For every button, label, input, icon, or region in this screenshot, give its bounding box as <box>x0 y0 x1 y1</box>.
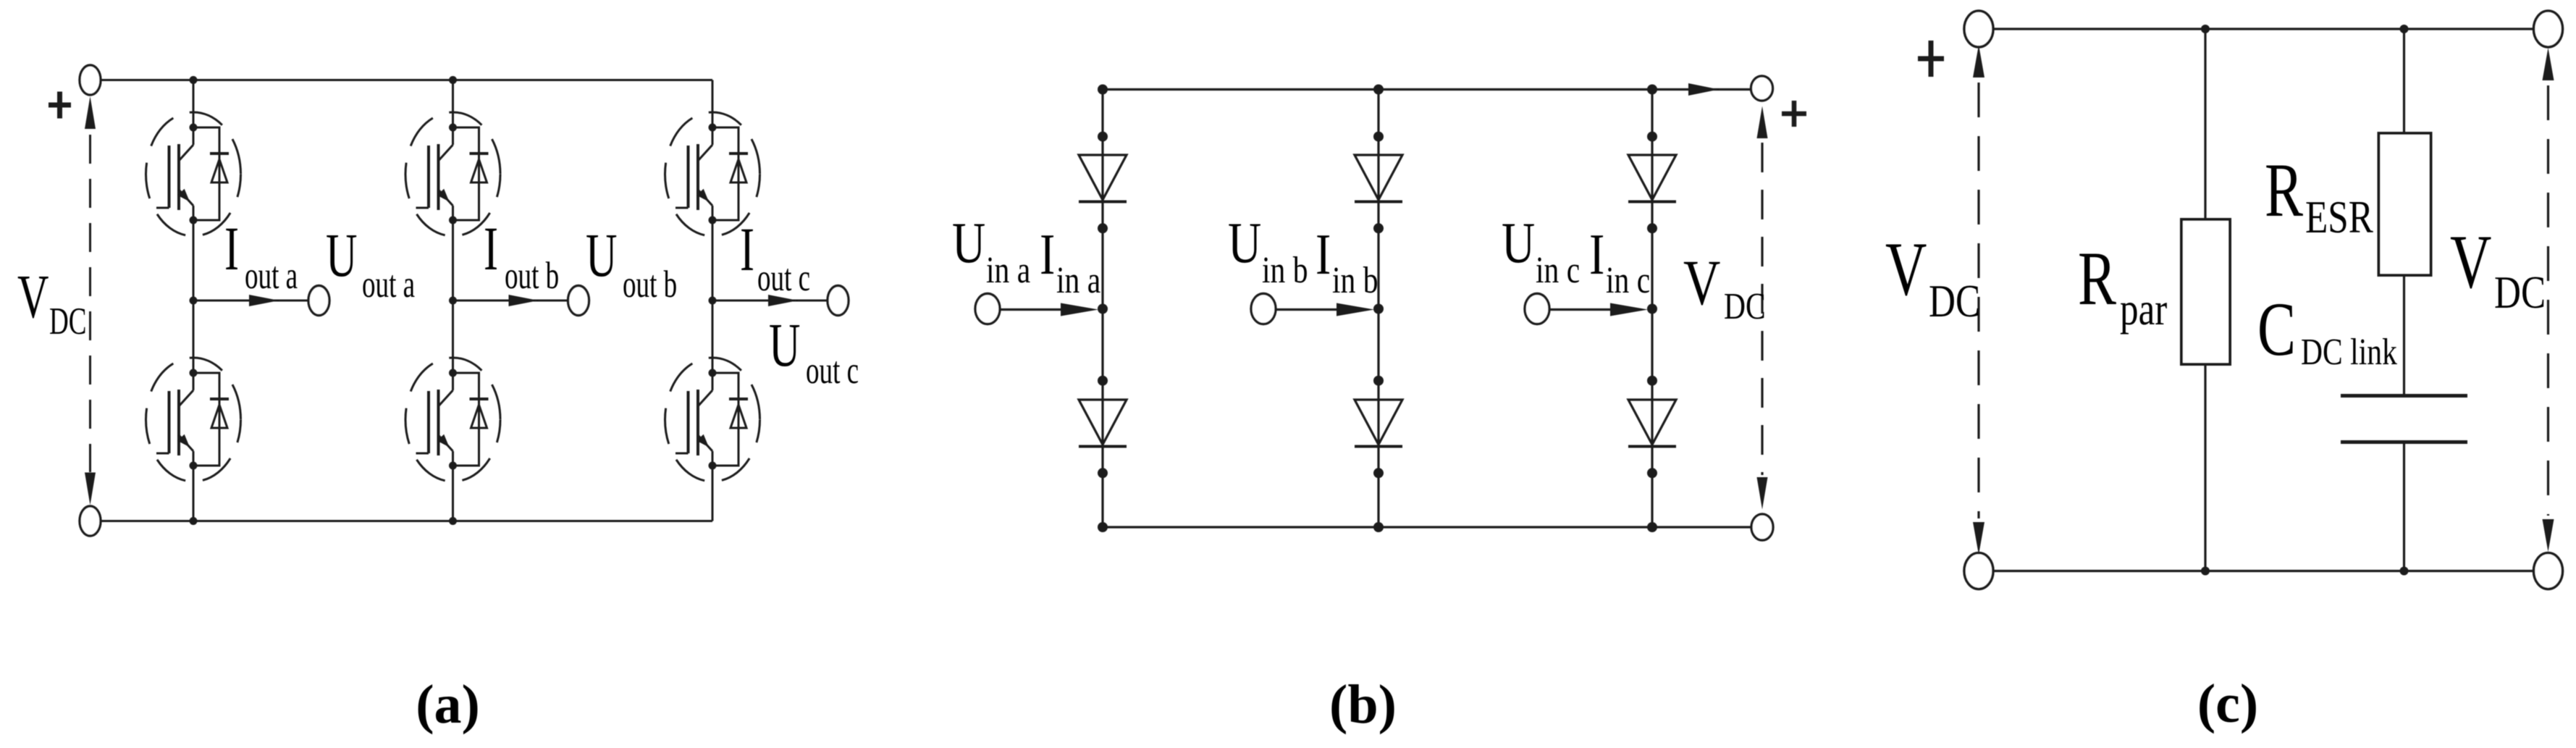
svg-text:I: I <box>1040 222 1055 286</box>
arrow on top rail of (b) <box>1688 83 1719 96</box>
svg-text:(b): (b) <box>1329 674 1397 735</box>
figure (b): three-phase diode rectifier <box>1103 88 1751 91</box>
diode D2 <box>1079 400 1127 447</box>
svg-text:U: U <box>1228 210 1261 274</box>
svg-text:(a): (a) <box>416 674 480 735</box>
svg-text:DC: DC <box>1929 275 1980 327</box>
figure (a): three-phase IGBT inverter bridge <box>101 79 712 81</box>
transistor Q2 (IGBT with anti-parallel diode) <box>146 358 241 482</box>
caption (a) <box>416 674 480 735</box>
terminal node DC- of (b) <box>1751 514 1773 540</box>
svg-text:out b: out b <box>505 253 559 296</box>
terminal node bottom-right of (c) <box>2534 553 2563 589</box>
transistor Q4 (IGBT with anti-parallel diode) <box>405 358 500 482</box>
wire phase-a leg of (a) <box>193 80 195 521</box>
input terminal node phase c of (b) <box>1525 294 1549 324</box>
svg-text:V: V <box>1683 248 1720 319</box>
svg-text:DC: DC <box>1724 286 1766 327</box>
resistor R_ESR <box>2379 29 2431 395</box>
label I_out b <box>484 215 559 297</box>
label V_DC of (b) <box>1683 248 1766 328</box>
svg-text:U: U <box>586 222 617 290</box>
svg-text:out a: out a <box>245 253 298 296</box>
svg-text:V: V <box>17 263 49 332</box>
svg-text:out a: out a <box>362 262 415 305</box>
junction dots on leg c of (b) <box>1647 85 1657 533</box>
svg-text:in c: in c <box>1536 250 1580 291</box>
wire bottom rail of (c) <box>1992 570 2535 572</box>
wire phase-c leg of (a) <box>712 80 714 521</box>
label V_DC of (a) <box>17 263 87 343</box>
V_DC dashed measurement line of (b) with arrows <box>1757 106 1768 510</box>
terminal node DC+ of (b) <box>1751 76 1773 101</box>
svg-text:in b: in b <box>1332 260 1379 301</box>
junction dots for R_par branch <box>2201 25 2210 576</box>
label I_in b <box>1316 222 1379 301</box>
label V_DC right of (c) <box>2450 220 2546 318</box>
terminal node output c of (a) <box>828 286 849 316</box>
svg-text:U: U <box>952 210 985 274</box>
junction dots on leg b of (b) <box>1373 85 1384 533</box>
label C_DC link <box>2257 287 2397 373</box>
transistor Q3 (IGBT with anti-parallel diode) <box>405 112 500 236</box>
svg-text:U: U <box>769 311 800 380</box>
diode D5 <box>1628 155 1676 202</box>
svg-text:I: I <box>224 215 239 284</box>
svg-text:out c: out c <box>757 256 810 298</box>
svg-text:R: R <box>2265 148 2303 233</box>
junction dot bottom rail / phase a <box>190 517 198 525</box>
wire input arm phase c of (b) with arrow <box>1549 303 1648 316</box>
svg-text:ESR: ESR <box>2305 191 2373 243</box>
figure (c): DC-link equivalent circuit <box>1992 28 2535 30</box>
caption (c) <box>2197 673 2258 734</box>
svg-text:par: par <box>2120 283 2167 335</box>
diode D3 <box>1355 155 1402 202</box>
svg-text:I: I <box>484 215 498 284</box>
label I_in a <box>1040 222 1100 301</box>
caption (b) <box>1329 674 1397 735</box>
svg-text:I: I <box>1589 222 1604 286</box>
plus sign of (a) <box>49 92 71 119</box>
svg-text:out c: out c <box>806 348 859 391</box>
transistor Q5 (IGBT with anti-parallel diode) <box>665 112 760 236</box>
svg-text:(c): (c) <box>2197 673 2258 734</box>
svg-text:V: V <box>2450 220 2491 305</box>
terminal node output a of (a) <box>308 286 329 316</box>
input terminal node phase b of (b) <box>1251 294 1276 324</box>
plus sign of (c) <box>1918 41 1944 77</box>
wire input arm phase a of (b) with arrow <box>1000 303 1098 316</box>
V_DC dashed line right of (c) with arrows <box>2543 48 2554 552</box>
wire input arm phase b of (b) with arrow <box>1276 303 1374 316</box>
node phase a output of (a) with arrow <box>190 295 309 306</box>
label U_out a <box>326 222 415 306</box>
junction dots for R_ESR branch <box>2400 25 2409 576</box>
svg-text:in b: in b <box>1262 250 1308 291</box>
svg-text:in c: in c <box>1606 260 1650 301</box>
svg-text:I: I <box>740 216 754 285</box>
node phase c output of (a) with arrow <box>709 295 828 306</box>
terminal node: DC+ input of (a) <box>80 65 101 95</box>
svg-text:U: U <box>326 222 357 290</box>
diode D4 <box>1355 400 1402 447</box>
junction dot top rail / phase a <box>190 76 198 84</box>
wire phase-b leg of (a) <box>452 80 454 521</box>
V_DC dashed measurement line of (a) with arrows <box>85 96 96 505</box>
terminal node top-left of (c) <box>1964 11 1993 47</box>
diode D1 <box>1079 155 1127 202</box>
label I_out a <box>224 215 298 297</box>
transistor Q1 (IGBT with anti-parallel diode) <box>146 112 241 236</box>
svg-text:C: C <box>2257 287 2296 372</box>
label R_par <box>2078 237 2167 335</box>
svg-text:DC link: DC link <box>2301 332 2397 373</box>
node phase b output of (a) with arrow <box>449 295 568 306</box>
transistor Q6 (IGBT with anti-parallel diode) <box>665 358 760 482</box>
svg-text:R: R <box>2078 237 2116 322</box>
plus sign of (b) <box>1782 101 1806 127</box>
svg-text:out b: out b <box>623 262 677 305</box>
terminal node bottom-left of (c) <box>1964 553 1993 589</box>
wire bottom rail of (b) <box>1103 526 1751 528</box>
wire phase-c leg of (b) <box>1651 90 1653 528</box>
terminal node output b of (a) <box>568 286 589 316</box>
capacitor C_DC link <box>2341 396 2467 571</box>
diode D6 <box>1628 400 1676 447</box>
svg-text:DC: DC <box>2494 266 2546 319</box>
wire phase-a leg of (b) <box>1101 90 1103 528</box>
svg-text:U: U <box>1502 210 1535 274</box>
resistor R_par <box>2181 29 2230 571</box>
terminal node top-right of (c) <box>2534 11 2563 47</box>
svg-text:I: I <box>1316 222 1331 286</box>
wire phase-b leg of (b) <box>1377 90 1379 528</box>
junction dot bottom rail / phase b <box>449 517 457 525</box>
label I_out c <box>740 216 810 299</box>
label U_out c <box>769 311 859 392</box>
svg-text:DC: DC <box>49 299 87 342</box>
label U_in a <box>952 210 1030 291</box>
input terminal node phase a of (b) <box>975 294 1000 324</box>
label U_in c <box>1502 210 1580 291</box>
label R_ESR <box>2265 148 2373 243</box>
svg-text:V: V <box>1885 227 1927 312</box>
label U_in b <box>1228 210 1308 291</box>
V_DC dashed line left of (c) with arrows <box>1973 45 1984 555</box>
svg-text:in a: in a <box>986 250 1030 291</box>
label I_in c <box>1589 222 1650 301</box>
terminal node: DC- input of (a) <box>80 506 101 536</box>
junction dot top rail / phase b <box>449 76 457 84</box>
label V_DC left of (c) <box>1885 227 1980 327</box>
wire bottom rail of (a) <box>101 520 712 522</box>
svg-text:in a: in a <box>1056 260 1100 301</box>
label U_out b <box>586 222 677 306</box>
junction dots on leg a of (b) <box>1098 85 1108 533</box>
